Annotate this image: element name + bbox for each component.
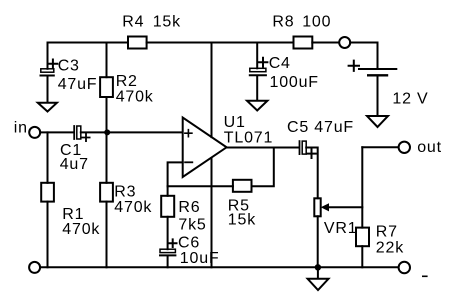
- junction dot VR1 ground: [315, 264, 321, 270]
- resistor R1: [41, 183, 54, 202]
- svg-text:470k: 470k: [116, 88, 154, 105]
- wire inverting input to feedback node: [168, 162, 183, 186]
- capacitor C6 bottom plate: [160, 254, 175, 256]
- svg-text:R2: R2: [116, 73, 138, 90]
- potentiometer VR1 wiper arrowhead: [321, 203, 329, 211]
- svg-text:15k: 15k: [228, 212, 256, 229]
- svg-text:100: 100: [302, 14, 331, 31]
- svg-text:470k: 470k: [62, 221, 100, 238]
- wire R1 to bottom rail: [47, 202, 49, 268]
- svg-text:C5 47uF: C5 47uF: [287, 119, 354, 136]
- wire op-amp output to C5: [227, 147, 299, 149]
- svg-text:R6: R6: [178, 199, 200, 216]
- ground bottom: [308, 279, 329, 290]
- wire out terminal to wiper column: [362, 146, 398, 148]
- wire R8 to supply terminal: [312, 42, 339, 44]
- wire top rail middle segment: [147, 42, 294, 44]
- capacitor C6 top plate (hollow): [160, 249, 175, 252]
- svg-text:4u7: 4u7: [60, 156, 89, 173]
- wire R1 branch: [47, 132, 49, 182]
- capacitor C1 left plate: [73, 126, 75, 139]
- battery plus sign: [349, 61, 359, 71]
- wire wiper column down to R7: [361, 147, 363, 227]
- svg-text:100uF: 100uF: [270, 74, 319, 91]
- wire node A to R3: [106, 132, 108, 182]
- ground battery: [367, 116, 388, 127]
- capacitor C5 plus sign: [307, 149, 316, 158]
- wire C5 to VR1 top: [306, 148, 318, 199]
- potentiometer VR1 body: [314, 198, 320, 216]
- wire R7 to bottom rail: [361, 246, 363, 267]
- op-amp U1 triangle: [183, 118, 227, 178]
- svg-text:R7: R7: [376, 224, 398, 241]
- terminal supply circle: [339, 37, 350, 48]
- wire C3 to ground: [47, 77, 49, 103]
- resistor R8: [294, 37, 313, 49]
- capacitor C6 plus sign: [169, 239, 177, 247]
- svg-text:470k: 470k: [114, 199, 152, 216]
- wire C6 to bottom rail: [167, 256, 169, 267]
- capacitor C5 right plate (hollow): [302, 141, 306, 154]
- wire C4 branch from rail: [256, 43, 258, 69]
- wire C4 to ground: [256, 76, 258, 100]
- svg-text:R3: R3: [114, 183, 136, 200]
- resistor R6: [161, 196, 174, 217]
- ground C4: [247, 101, 267, 111]
- op-amp minus input marker: [185, 161, 192, 163]
- svg-text:in: in: [14, 119, 28, 136]
- wire R5 to output: [252, 148, 274, 187]
- wire op-amp V+ pin from rail: [211, 43, 213, 138]
- svg-text:out: out: [417, 139, 442, 156]
- wire R6 to C6: [167, 217, 169, 249]
- label minus mark: [423, 275, 427, 277]
- wire top rail left segment: [48, 42, 129, 44]
- svg-text:10uF: 10uF: [180, 250, 220, 267]
- capacitor C1 plus sign: [82, 134, 89, 141]
- svg-text:12 V: 12 V: [392, 91, 428, 108]
- capacitor C3 top plate (hollow): [41, 69, 54, 72]
- svg-text:R4: R4: [122, 14, 144, 31]
- resistor R4: [128, 37, 147, 49]
- resistor R2: [100, 77, 113, 97]
- capacitor C3 plus sign: [49, 60, 58, 69]
- svg-text:22k: 22k: [376, 240, 404, 257]
- capacitor C1 right plate (hollow): [77, 126, 81, 139]
- wire R3 to bottom rail: [106, 202, 108, 268]
- wire R2 to node A: [106, 97, 108, 132]
- terminal out circle: [399, 142, 410, 153]
- terminal in circle: [29, 127, 40, 138]
- resistor R7: [356, 228, 369, 247]
- capacitor C3 bottom plate: [41, 75, 54, 77]
- resistor R3: [100, 183, 113, 202]
- svg-text:C3: C3: [58, 57, 80, 74]
- wire C3 branch from rail: [47, 43, 49, 69]
- svg-text:47uF: 47uF: [58, 76, 98, 93]
- battery BT1 12V plus plate: [359, 68, 396, 70]
- wire in terminal to C1: [40, 131, 73, 133]
- svg-text:VR1: VR1: [324, 220, 358, 237]
- junction node A dot: [104, 129, 110, 135]
- capacitor C4 bottom plate: [250, 74, 266, 76]
- terminal bottom-left circle: [29, 262, 40, 273]
- svg-text:7k5: 7k5: [178, 216, 206, 233]
- capacitor C4 top plate (hollow): [250, 68, 266, 71]
- svg-text:15k: 15k: [153, 14, 181, 31]
- wire battery to ground: [377, 76, 379, 115]
- capacitor C5 left plate: [299, 141, 301, 154]
- op-amp plus input marker: [185, 130, 192, 137]
- terminal bottom-right circle: [399, 262, 410, 273]
- wire op-amp V- pin to bottom rail: [211, 158, 213, 267]
- svg-text:C4: C4: [269, 55, 291, 72]
- wire junction to ground symbol: [317, 267, 319, 278]
- svg-text:R8: R8: [272, 14, 294, 31]
- svg-text:TL071: TL071: [224, 130, 273, 147]
- wire supply terminal to battery: [350, 43, 377, 69]
- battery BT1 minus plate: [368, 74, 387, 76]
- ground C3: [38, 103, 57, 112]
- wire C1 to op-amp non-inverting input: [81, 131, 183, 133]
- wire VR1 bottom to rail: [317, 216, 319, 267]
- wire feedback node to R6: [167, 186, 169, 196]
- wire feedback line to R5: [168, 185, 233, 187]
- potentiometer VR1 wiper arrow line: [325, 206, 362, 208]
- resistor R5: [233, 180, 252, 192]
- capacitor C4 plus sign: [259, 58, 268, 67]
- wire R2 branch from rail: [106, 43, 108, 78]
- wire bottom rail: [40, 266, 398, 268]
- svg-text:U1: U1: [224, 114, 246, 131]
